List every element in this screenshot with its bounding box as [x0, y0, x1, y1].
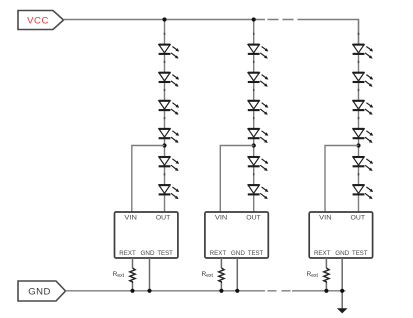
svg-text:REXT: REXT [314, 250, 331, 257]
ground flag GND [18, 281, 66, 301]
resistor Rext2 [219, 268, 224, 283]
svg-text:Rext: Rext [307, 271, 319, 279]
svg-text:GND: GND [335, 250, 349, 257]
power flag VCC [18, 11, 64, 30]
LED D23 [248, 101, 269, 115]
junction node Rext3 / GND rail [324, 289, 328, 293]
svg-text:OUT: OUT [246, 214, 261, 221]
pin label REXT (U2) [210, 250, 227, 257]
junction node VIN tap 2 [252, 143, 256, 147]
LED D12 [159, 73, 180, 87]
junction node string 1 / VCC rail [162, 17, 166, 21]
pin label TEST (U2) [248, 250, 264, 257]
value label Rext2 [202, 271, 214, 279]
svg-text:GND: GND [231, 250, 245, 257]
wire LED string 1 [164, 20, 166, 213]
LED D36 [353, 185, 374, 199]
wire LED string 2 [253, 20, 255, 213]
resistor Rext1 [130, 268, 135, 283]
wire VCC rail dashed continuation [265, 19, 298, 21]
svg-text:TEST: TEST [352, 250, 368, 257]
LED D35 [353, 157, 374, 171]
IC U2 [205, 212, 268, 258]
wire VIN tap 2 [220, 146, 253, 213]
wire VCC rail (left solid segment) [64, 19, 266, 21]
ground [337, 308, 348, 313]
pin label OUT (U3) [351, 214, 366, 221]
value label Rext3 [307, 271, 319, 279]
wire GND rail (left solid segment) [66, 290, 266, 292]
wire REXT pin 3 [325, 258, 327, 268]
pin label OUT (U2) [246, 214, 261, 221]
junction node GND pin 3 / GND rail [340, 289, 344, 293]
wire VIN tap 3 [325, 146, 359, 213]
pin label VIN (U2) [215, 214, 228, 221]
svg-text:REXT: REXT [119, 250, 136, 257]
wire resistor to GND rail 3 [325, 283, 327, 291]
svg-text:OUT: OUT [351, 214, 366, 221]
wire VIN tap 1 [132, 146, 165, 213]
LED D11 [159, 45, 180, 59]
resistor Rext3 [324, 268, 329, 283]
wire VCC rail (right segment, corner to column 3) [298, 20, 359, 46]
svg-text:TEST: TEST [248, 250, 264, 257]
svg-text:VIN: VIN [124, 214, 137, 221]
wire GND rail (right segment) [292, 290, 346, 292]
pin label GND (U1) [141, 250, 155, 257]
junction node string 2 / VCC rail [252, 17, 256, 21]
LED D14 [159, 129, 180, 143]
wire resistor to GND rail 2 [220, 283, 222, 291]
LED D26 [248, 185, 269, 199]
pin label TEST (U3) [352, 250, 368, 257]
svg-text:VCC: VCC [27, 15, 49, 26]
LED D21 [248, 45, 269, 59]
pin label REXT (U1) [119, 250, 136, 257]
pin label VIN (U3) [319, 214, 332, 221]
LED D15 [159, 157, 180, 171]
svg-text:VIN: VIN [215, 214, 228, 221]
svg-text:Rext: Rext [113, 271, 125, 279]
LED D31 [353, 45, 374, 59]
LED D33 [353, 101, 374, 115]
IC U3 [309, 212, 372, 258]
pin label VIN (U1) [124, 214, 137, 221]
wire resistor to GND rail 1 [132, 283, 134, 291]
junction node Rext2 / GND rail [219, 289, 223, 293]
LED D34 [353, 129, 374, 143]
LED D25 [248, 157, 269, 171]
svg-text:TEST: TEST [157, 250, 173, 257]
junction node GND pin 1 / GND rail [147, 289, 151, 293]
svg-text:VIN: VIN [319, 214, 332, 221]
LED D13 [159, 101, 180, 115]
wire REXT pin 2 [220, 258, 222, 268]
wire GND pin 2 [236, 258, 238, 291]
value label Rext1 [113, 271, 125, 279]
pin label REXT (U3) [314, 250, 331, 257]
LED D16 [159, 185, 180, 199]
LED D32 [353, 73, 374, 87]
svg-text:GND: GND [141, 250, 155, 257]
svg-text:REXT: REXT [210, 250, 227, 257]
wire REXT pin 1 [132, 258, 134, 268]
pin label GND (U3) [335, 250, 349, 257]
wire LED string 3 [358, 20, 360, 213]
pin label OUT (U1) [156, 214, 171, 221]
IC U1 [115, 212, 178, 258]
junction node VIN tap 1 [162, 143, 166, 147]
wire GND pin 3 [341, 258, 343, 309]
wire GND pin 1 [149, 258, 151, 291]
pin label GND (U2) [231, 250, 245, 257]
junction node GND pin 2 / GND rail [235, 289, 239, 293]
svg-text:Rext: Rext [202, 271, 214, 279]
pin label TEST (U1) [157, 250, 173, 257]
LED D22 [248, 73, 269, 87]
junction node Rext1 / GND rail [130, 289, 134, 293]
svg-text:OUT: OUT [156, 214, 171, 221]
svg-text:GND: GND [28, 287, 51, 298]
LED D24 [248, 129, 269, 143]
junction node VIN tap 3 [356, 143, 360, 147]
wire GND rail dashed continuation [265, 290, 292, 292]
